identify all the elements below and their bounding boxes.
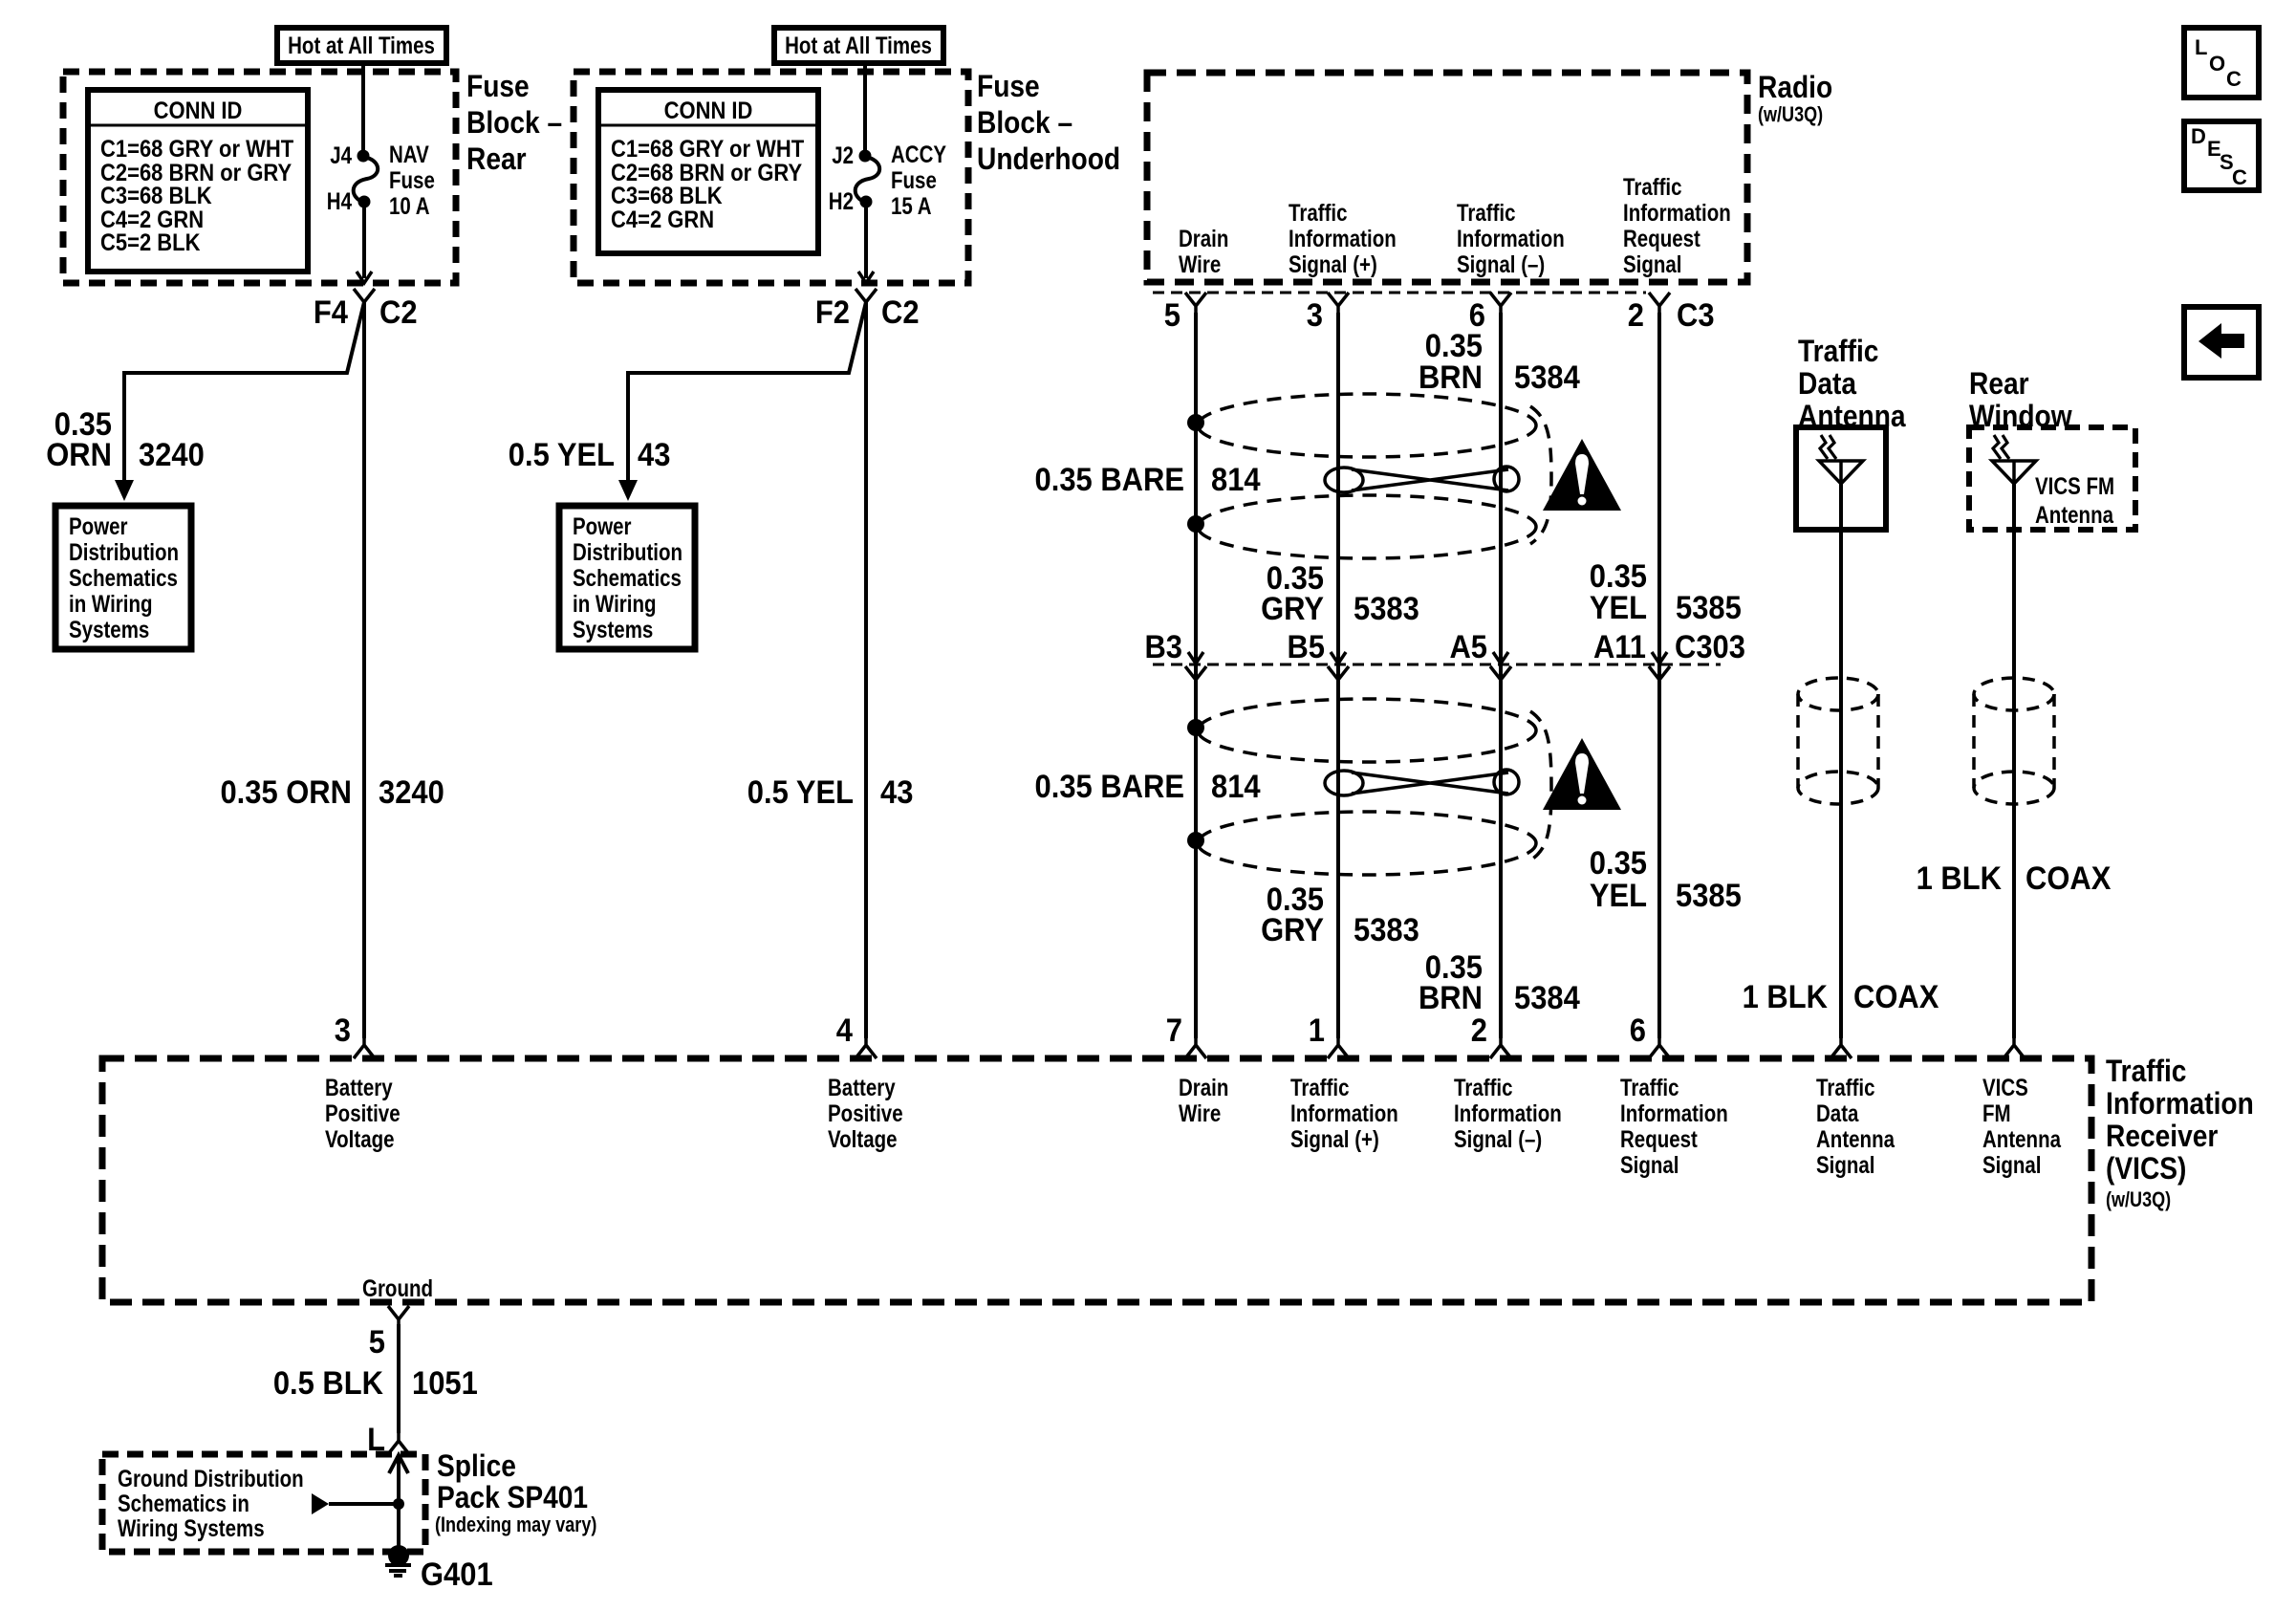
svg-text:Hot at All Times: Hot at All Times (785, 32, 932, 58)
svg-text:43: 43 (638, 437, 670, 473)
svg-text:Distribution: Distribution (573, 538, 682, 565)
svg-text:ORN: ORN (46, 437, 112, 473)
svg-text:Traffic: Traffic (1623, 173, 1682, 200)
terminal 4 at receiver (856, 1037, 877, 1058)
svg-text:Signal (+): Signal (+) (1289, 250, 1377, 277)
svg-text:Traffic: Traffic (1457, 199, 1516, 226)
svg-text:Receiver: Receiver (2106, 1120, 2219, 1153)
svg-text:Drain: Drain (1179, 225, 1228, 251)
svg-text:(w/U3Q): (w/U3Q) (1758, 103, 1823, 126)
svg-text:in Wiring: in Wiring (69, 590, 153, 617)
svg-text:VICS: VICS (1982, 1074, 2028, 1100)
wire from Hot at All Times to NAV fuse (361, 63, 365, 156)
svg-text:814: 814 (1211, 462, 1261, 498)
arrow into C303 terminal A11 (1652, 652, 1667, 664)
svg-text:1 BLK: 1 BLK (1917, 860, 2003, 897)
antenna terminal at receiver (1830, 1037, 1852, 1058)
coax shield symbol (left) (1798, 678, 1878, 804)
arrow into connector F4 (357, 272, 372, 283)
cable shield (lower) (1198, 699, 1536, 762)
svg-text:3: 3 (1307, 297, 1323, 334)
svg-text:Wire: Wire (1179, 250, 1221, 277)
svg-text:Fuse: Fuse (466, 70, 530, 103)
svg-text:0.5 YEL: 0.5 YEL (509, 437, 615, 473)
svg-text:C: C (2226, 67, 2242, 91)
coax shield symbol (right) (1974, 678, 2054, 804)
coax wire 1 BLK traffic data antenna (1839, 484, 1843, 1038)
svg-text:D: D (2191, 124, 2206, 148)
node J2 (859, 150, 872, 163)
svg-text:C3: C3 (1677, 297, 1715, 334)
svg-text:Request: Request (1623, 225, 1700, 251)
svg-text:Traffic: Traffic (1289, 199, 1348, 226)
svg-text:Request: Request (1620, 1125, 1698, 1152)
svg-text:Information: Information (1290, 1099, 1398, 1126)
cable shield (upper) (1198, 394, 1536, 457)
svg-text:1051: 1051 (412, 1365, 478, 1402)
svg-text:A11: A11 (1593, 629, 1646, 665)
svg-text:G401: G401 (421, 1557, 493, 1593)
svg-text:Battery: Battery (325, 1074, 393, 1100)
splice junction (393, 1498, 404, 1510)
svg-text:COAX: COAX (1853, 979, 1939, 1015)
DESC reference box (2184, 121, 2259, 190)
arrow into C303 terminal B5 (1331, 652, 1346, 664)
svg-text:0.35 BARE: 0.35 BARE (1035, 462, 1184, 498)
svg-text:Power: Power (573, 512, 632, 539)
svg-text:Hot at All Times: Hot at All Times (288, 32, 435, 58)
arrow into connector F2 (858, 272, 874, 283)
svg-text:Fuse: Fuse (891, 166, 937, 193)
svg-text:Drain: Drain (1179, 1074, 1228, 1100)
svg-text:L: L (2195, 35, 2207, 59)
back arrow box (2184, 307, 2259, 378)
svg-text:0.35: 0.35 (1590, 845, 1647, 882)
svg-text:C5=2 BLK: C5=2 BLK (100, 229, 200, 256)
svg-text:BRN: BRN (1419, 359, 1483, 396)
node J4 (357, 150, 370, 163)
svg-text:J4: J4 (330, 142, 352, 168)
svg-text:Ground Distribution: Ground Distribution (118, 1465, 304, 1491)
drain junction upper-1 (1187, 414, 1204, 431)
svg-text:2: 2 (1628, 297, 1644, 334)
svg-text:3240: 3240 (379, 774, 444, 811)
Hot at All Times label box (middle) (774, 28, 943, 63)
svg-text:Signal: Signal (1816, 1151, 1875, 1178)
svg-text:2: 2 (1471, 1012, 1487, 1049)
svg-text:Rear: Rear (466, 142, 527, 176)
antenna symbol (traffic data) (1819, 435, 1863, 484)
svg-text:(VICS): (VICS) (2106, 1152, 2186, 1186)
Hot at All Times label box (left) (277, 28, 446, 63)
svg-text:Signal (–): Signal (–) (1454, 1125, 1542, 1152)
svg-text:C2: C2 (881, 294, 920, 331)
arrow into C303 terminal B3 (1188, 652, 1203, 664)
svg-text:Fuse: Fuse (977, 70, 1040, 103)
radio terminal 6 (1490, 293, 1511, 315)
svg-text:43: 43 (880, 774, 913, 811)
wire fuse output to F4 (362, 207, 366, 278)
svg-text:C1=68 GRY or WHT: C1=68 GRY or WHT (611, 136, 805, 163)
arrow into C303 terminal A5 (1493, 652, 1508, 664)
wire 0.5 YEL 43 to VICS pin 4 (864, 302, 868, 1038)
svg-text:(Indexing may vary): (Indexing may vary) (435, 1513, 596, 1536)
radio terminal 5 (1185, 293, 1206, 315)
svg-text:ACCY: ACCY (891, 141, 946, 167)
svg-text:J2: J2 (832, 142, 854, 168)
drain junction upper-2 (1187, 515, 1204, 533)
Ground Distribution dashed box (102, 1454, 425, 1552)
svg-text:Power: Power (69, 512, 128, 539)
svg-text:Voltage: Voltage (325, 1125, 395, 1152)
svg-text:5383: 5383 (1354, 912, 1419, 948)
svg-text:(w/U3Q): (w/U3Q) (2106, 1188, 2171, 1211)
svg-text:Antenna: Antenna (1982, 1125, 2061, 1152)
svg-text:A5: A5 (1449, 629, 1487, 665)
svg-text:5: 5 (1164, 297, 1180, 334)
svg-text:Block –: Block – (466, 106, 562, 140)
svg-text:Systems: Systems (573, 616, 653, 642)
svg-text:B5: B5 (1287, 629, 1325, 665)
caution triangle (lower) (1543, 738, 1621, 810)
svg-text:Traffic: Traffic (1290, 1074, 1350, 1100)
splice pack SP401 internal wire (389, 1455, 408, 1549)
svg-text:6: 6 (1630, 1012, 1646, 1049)
CONN ID table (left) (88, 90, 308, 272)
drain junction lower-2 (1187, 832, 1204, 849)
svg-text:3: 3 (335, 1012, 351, 1049)
svg-text:Traffic: Traffic (1620, 1074, 1679, 1100)
svg-text:Positive: Positive (828, 1099, 903, 1126)
svg-text:Voltage: Voltage (828, 1125, 898, 1152)
svg-text:B3: B3 (1144, 629, 1182, 665)
svg-text:Ground: Ground (362, 1274, 433, 1301)
wire 0.35 GRY 5383 signal + (1336, 313, 1340, 1038)
wire 0.35 YEL 5385 request (1657, 313, 1661, 1038)
svg-text:5: 5 (369, 1324, 385, 1361)
svg-text:C4=2 GRN: C4=2 GRN (611, 207, 714, 233)
LOC reference box (2184, 28, 2259, 98)
svg-text:H2: H2 (829, 187, 854, 214)
svg-text:Positive: Positive (325, 1099, 401, 1126)
svg-text:C3=68 BLK: C3=68 BLK (611, 183, 723, 209)
svg-text:Schematics in: Schematics in (118, 1490, 249, 1516)
svg-text:Battery: Battery (828, 1074, 896, 1100)
svg-text:C1=68 GRY or WHT: C1=68 GRY or WHT (100, 136, 294, 163)
Power Distribution Schematics box (middle) (559, 506, 695, 649)
node H4 (358, 196, 371, 208)
svg-text:15 A: 15 A (891, 192, 932, 219)
svg-text:BRN: BRN (1419, 980, 1483, 1016)
CONN ID table (middle) (598, 90, 818, 253)
ground terminal 5 below receiver (388, 1306, 409, 1328)
svg-text:YEL: YEL (1590, 590, 1647, 626)
node H2 (860, 196, 873, 208)
svg-text:Wire: Wire (1179, 1099, 1221, 1126)
connector C2 terminal F2 (856, 289, 877, 311)
svg-text:Information: Information (1454, 1099, 1562, 1126)
svg-text:0.5 YEL: 0.5 YEL (747, 774, 854, 811)
ground G401 (388, 1545, 409, 1566)
svg-text:Signal (+): Signal (+) (1290, 1125, 1379, 1152)
svg-text:C2: C2 (379, 294, 418, 331)
svg-text:Distribution: Distribution (69, 538, 179, 565)
svg-text:5385: 5385 (1676, 878, 1742, 914)
svg-text:VICS FM: VICS FM (2035, 472, 2114, 499)
svg-text:Pack SP401: Pack SP401 (437, 1481, 588, 1514)
svg-text:Antenna: Antenna (2035, 501, 2113, 528)
svg-text:NAV: NAV (389, 141, 429, 167)
svg-text:in Wiring: in Wiring (573, 590, 657, 617)
svg-text:C303: C303 (1675, 629, 1745, 665)
Power Distribution Schematics box (left) (55, 506, 191, 649)
svg-text:5384: 5384 (1514, 359, 1580, 396)
svg-text:Data: Data (1816, 1099, 1859, 1126)
Fuse Block - Underhood dashed box (574, 72, 968, 283)
svg-text:C3=68 BLK: C3=68 BLK (100, 183, 212, 209)
antenna symbol (VICS FM) (1992, 435, 2036, 484)
wire F4 to ORN branch (124, 302, 364, 481)
radio terminal 2 (1649, 293, 1670, 315)
svg-text:Systems: Systems (69, 616, 149, 642)
radio terminal 3 (1328, 293, 1349, 315)
svg-text:O: O (2209, 52, 2225, 76)
svg-text:1: 1 (1309, 1012, 1325, 1049)
Fuse Block - Rear dashed box (63, 72, 456, 283)
svg-text:Traffic: Traffic (2106, 1055, 2186, 1088)
svg-text:Information: Information (1620, 1099, 1728, 1126)
svg-text:FM: FM (1982, 1099, 2011, 1126)
svg-text:814: 814 (1211, 769, 1261, 805)
connector C2 terminal F4 (354, 289, 375, 311)
wire 0.35 ORN 3240 to VICS pin 3 (362, 302, 366, 1038)
arrow into Power Distribution (middle) (618, 480, 638, 501)
svg-text:Fuse: Fuse (389, 166, 435, 193)
svg-text:Traffic: Traffic (1798, 335, 1878, 368)
wire from Hot at All Times to ACCY fuse (863, 63, 867, 156)
wire 0.35 BRN 5384 signal - (1499, 313, 1503, 1038)
Radio (w/U3Q) dashed box (1147, 73, 1747, 282)
svg-text:Signal: Signal (1623, 250, 1682, 277)
svg-text:Data: Data (1798, 367, 1856, 401)
svg-text:0.35 BARE: 0.35 BARE (1035, 769, 1184, 805)
wire 0.5 BLK 1051 (397, 1324, 401, 1433)
VICS FM terminal at receiver (2004, 1037, 2025, 1058)
drain wire 0.35 BARE 814 (1194, 313, 1198, 1038)
svg-text:COAX: COAX (2025, 860, 2112, 897)
Traffic Information Receiver (VICS) dashed box (102, 1058, 2091, 1302)
svg-text:Signal (–): Signal (–) (1457, 250, 1545, 277)
connector C3 dashed line (1153, 292, 1646, 294)
svg-text:4: 4 (836, 1012, 853, 1049)
svg-text:5383: 5383 (1354, 591, 1419, 627)
svg-text:10 A: 10 A (389, 192, 430, 219)
caution triangle (upper) (1543, 439, 1621, 511)
drain junction lower-1 (1187, 719, 1204, 736)
svg-text:H4: H4 (327, 187, 352, 214)
fuse ACCY 15A (J2-H2) (856, 157, 879, 203)
svg-text:Signal: Signal (1982, 1151, 2042, 1178)
svg-text:GRY: GRY (1261, 591, 1324, 627)
wire F2 to YEL branch (628, 302, 866, 481)
svg-text:Block –: Block – (977, 106, 1072, 140)
svg-text:Signal: Signal (1620, 1151, 1679, 1178)
svg-text:Information: Information (1289, 225, 1397, 251)
svg-text:0.5 BLK: 0.5 BLK (273, 1365, 384, 1402)
svg-text:Radio: Radio (1758, 71, 1832, 104)
svg-text:Rear: Rear (1969, 367, 2029, 401)
svg-text:Information: Information (2106, 1087, 2254, 1121)
svg-text:Traffic: Traffic (1816, 1074, 1875, 1100)
svg-text:Underhood: Underhood (977, 142, 1120, 176)
arrow into Power Distribution (left) (115, 480, 134, 501)
svg-text:GRY: GRY (1261, 912, 1324, 948)
svg-text:F2: F2 (815, 294, 850, 331)
Rear Window dashed box (1969, 427, 2135, 530)
coax wire 1 BLK VICS FM antenna (2012, 484, 2016, 1038)
svg-text:C: C (2232, 165, 2247, 189)
svg-text:Splice: Splice (437, 1449, 516, 1483)
splice branch to ground distribution (312, 1493, 329, 1514)
svg-text:Wiring Systems: Wiring Systems (118, 1514, 265, 1541)
svg-text:Schematics: Schematics (573, 564, 682, 591)
twisted pair symbol (lower) (1325, 771, 1363, 795)
svg-text:CONN ID: CONN ID (664, 98, 753, 124)
svg-text:YEL: YEL (1590, 878, 1647, 914)
svg-text:0.35 ORN: 0.35 ORN (220, 774, 352, 811)
svg-text:Schematics: Schematics (69, 564, 178, 591)
svg-text:Information: Information (1457, 225, 1565, 251)
wire fuse output to F2 (864, 207, 868, 278)
svg-text:CONN ID: CONN ID (154, 98, 243, 124)
connector C303 dashed line (1153, 664, 1721, 666)
terminal 3 at receiver (354, 1037, 375, 1058)
Traffic Data Antenna box (1796, 427, 1886, 530)
svg-text:1 BLK: 1 BLK (1743, 979, 1829, 1015)
svg-text:5384: 5384 (1514, 980, 1580, 1016)
svg-text:3240: 3240 (139, 437, 205, 473)
splice pack terminal L (388, 1433, 409, 1454)
svg-text:7: 7 (1166, 1012, 1182, 1049)
svg-text:Traffic: Traffic (1454, 1074, 1513, 1100)
svg-text:5385: 5385 (1676, 590, 1742, 626)
fuse NAV 10A (J4-H4) (354, 157, 378, 203)
svg-text:Information: Information (1623, 199, 1731, 226)
twisted pair symbol (upper) (1325, 468, 1363, 492)
svg-text:F4: F4 (314, 294, 348, 331)
svg-text:Antenna: Antenna (1816, 1125, 1895, 1152)
